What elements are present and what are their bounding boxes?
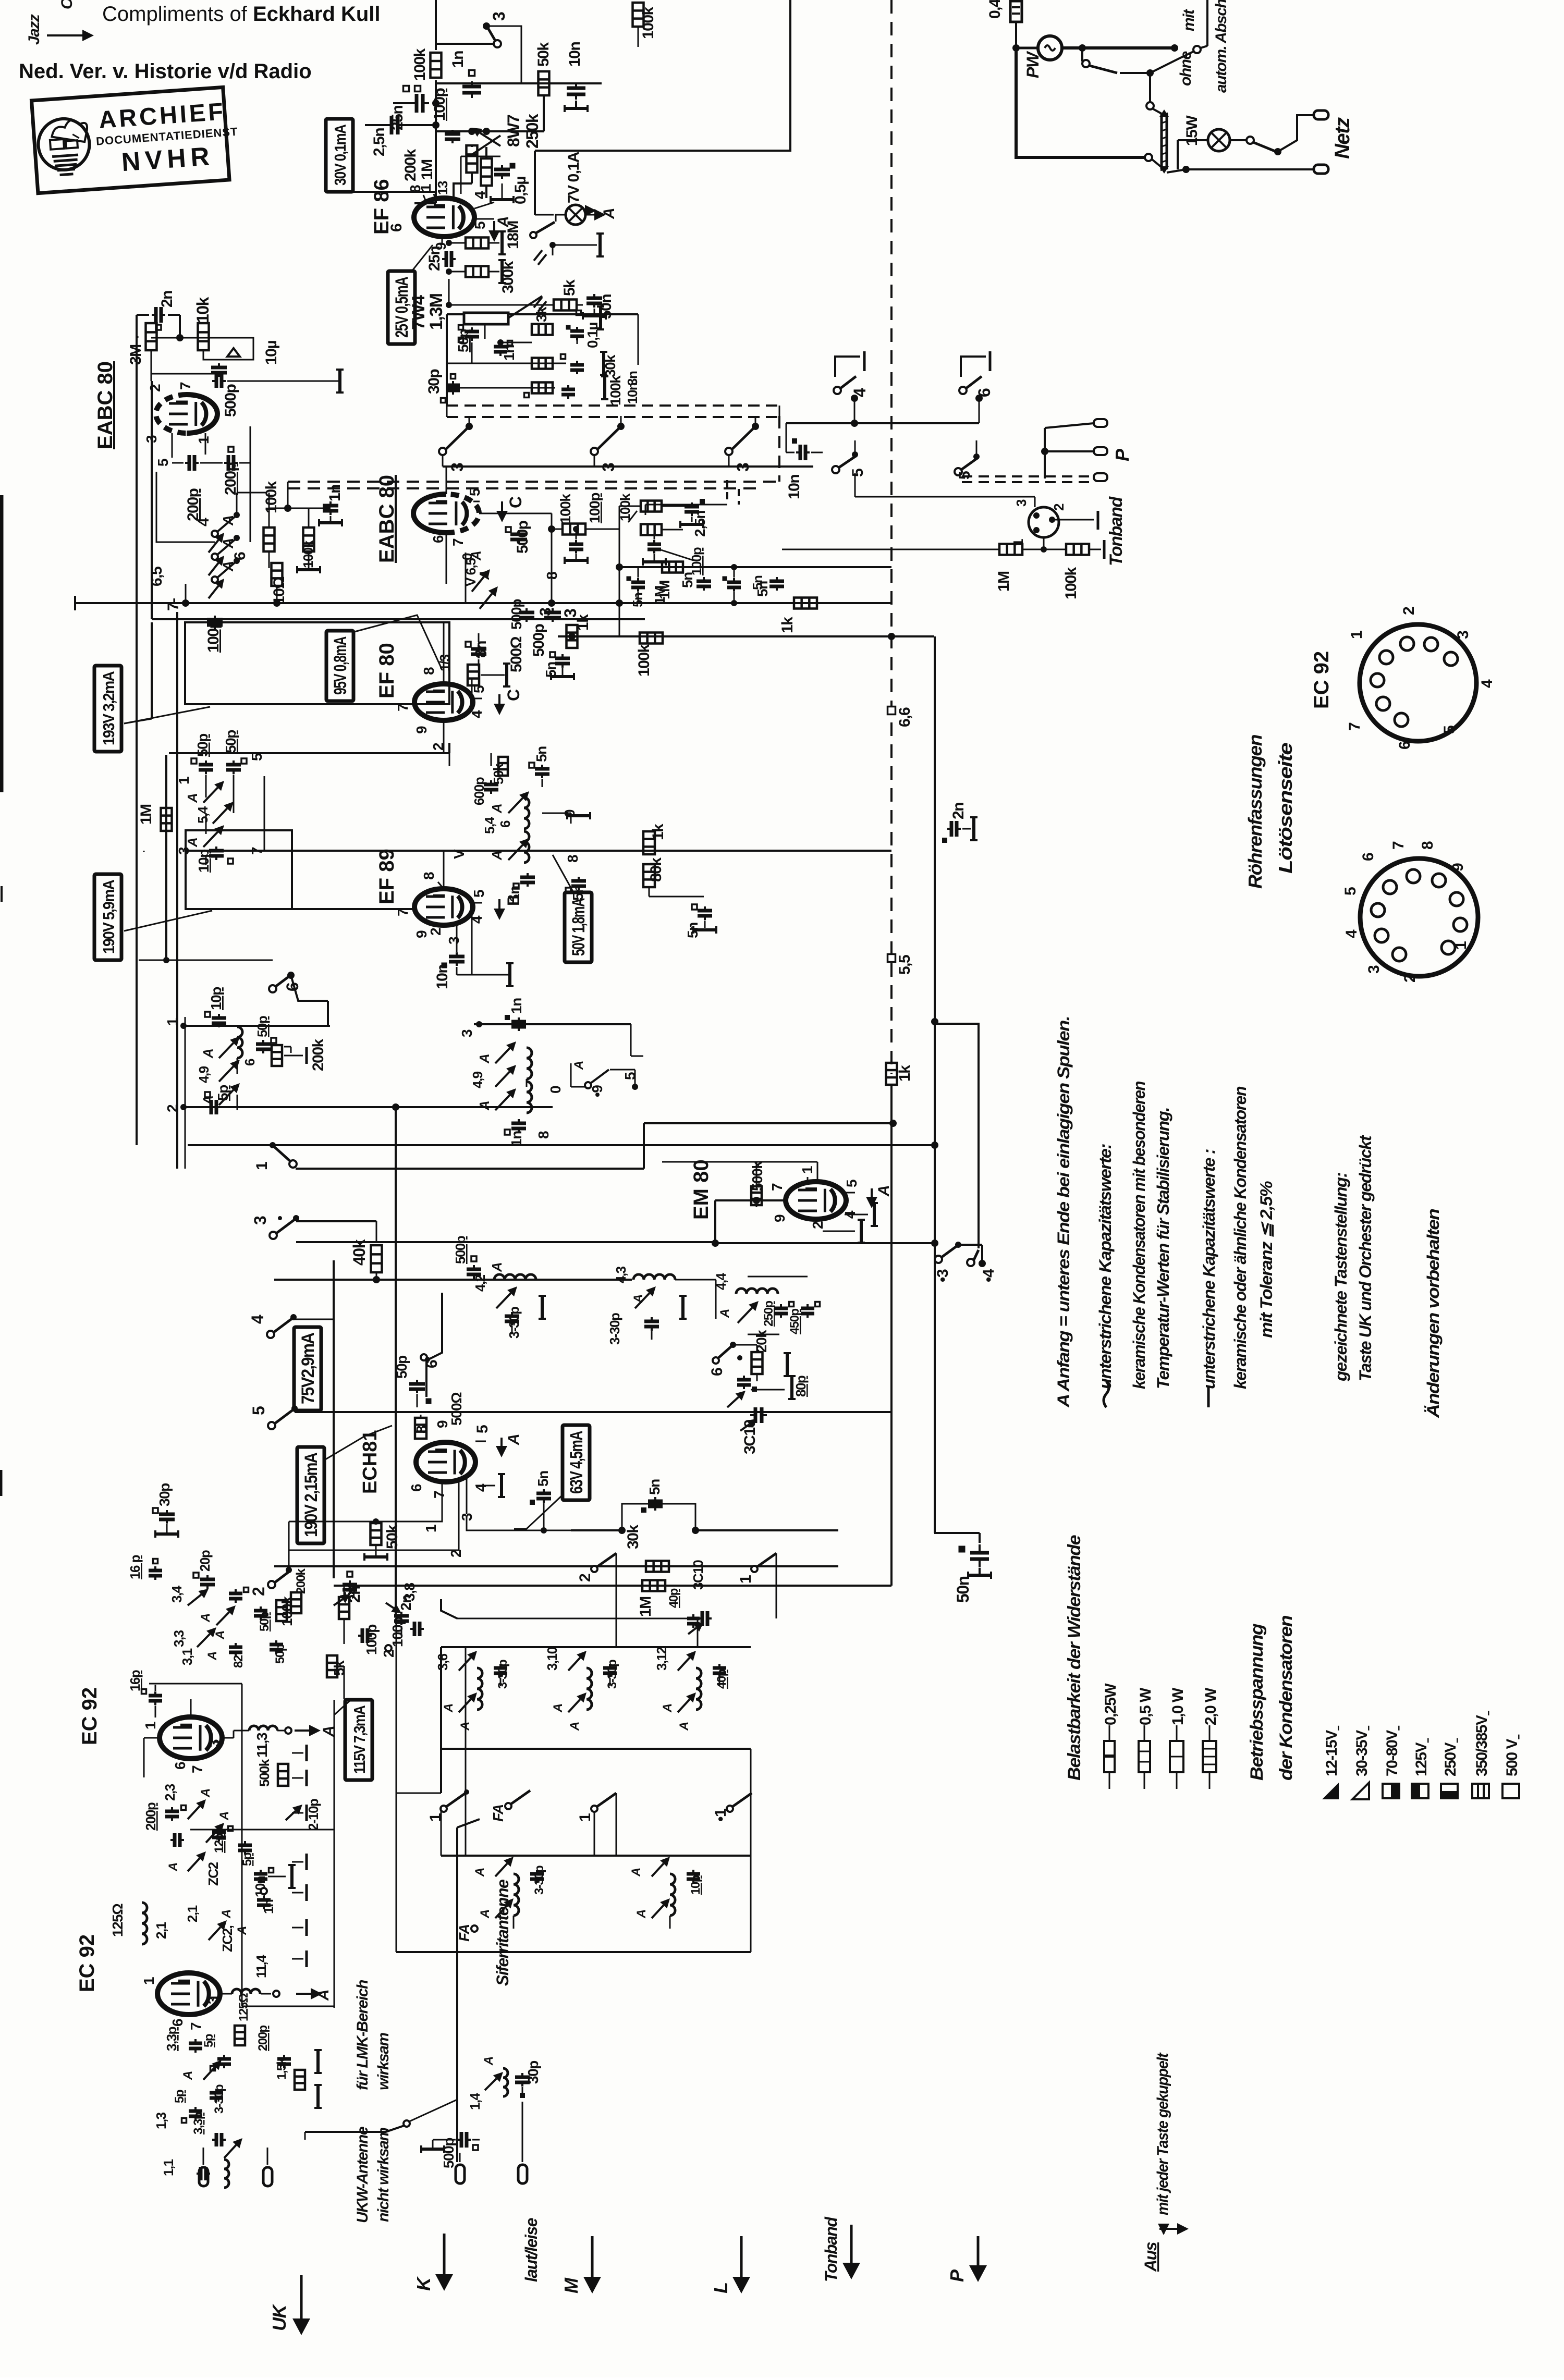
leader 190Vb	[325, 1426, 392, 1459]
bus y2389 em	[715, 1242, 937, 1244]
bank bus b	[441, 1748, 751, 1750]
wire osc rails	[344, 1586, 345, 1597]
wire 200p chain	[200, 462, 223, 464]
cap 5p am	[210, 1100, 213, 1114]
wire mains bottom	[1016, 48, 1145, 157]
wire to primary	[1149, 73, 1151, 102]
svg-text:6: 6	[423, 1360, 441, 1368]
svg-text:3k: 3k	[533, 306, 549, 322]
wire x836 mid	[435, 80, 437, 131]
svg-text:1M: 1M	[652, 586, 668, 605]
svg-text:0,1µ: 0,1µ	[584, 323, 601, 348]
contact 7 det	[212, 576, 218, 583]
resistor 300k	[466, 266, 488, 277]
boxlabel 75V 2,9mA	[294, 1327, 321, 1410]
svg-text:6: 6	[1396, 741, 1413, 750]
bus y2709	[442, 1411, 891, 1413]
svg-text:1,4: 1,4	[467, 2092, 483, 2110]
svg-text:Änderungen vorbehalten: Änderungen vorbehalten	[1424, 1209, 1443, 1418]
leader 63V	[514, 1496, 561, 1529]
wire 3 ech	[296, 1220, 376, 1222]
svg-text:7: 7	[1390, 841, 1407, 850]
svg-text:6: 6	[1360, 853, 1377, 861]
svg-text:5: 5	[467, 488, 483, 496]
contact 1 am det	[275, 1147, 290, 1161]
resistor 100k rd	[563, 524, 585, 535]
trim bank2	[568, 1658, 580, 1671]
capacitor 50n bottom right	[979, 1533, 981, 1543]
trim if2 c	[203, 832, 218, 847]
wire contact3 right	[486, 26, 521, 83]
resistor 5k	[554, 300, 577, 311]
svg-text:100k: 100k	[636, 644, 653, 677]
svg-text:193V 3,2mA: 193V 3,2mA	[100, 671, 118, 745]
svg-text:4,9: 4,9	[196, 1066, 212, 1083]
svg-text:125Ω: 125Ω	[109, 1904, 126, 1937]
svg-text:2n: 2n	[950, 803, 967, 819]
svg-text:0,25W: 0,25W	[1102, 1683, 1119, 1725]
svg-text:7V 0,1A: 7V 0,1A	[565, 152, 582, 203]
svg-text:63V 4,5mA: 63V 4,5mA	[567, 1431, 586, 1494]
svg-text:200p: 200p	[143, 1802, 158, 1831]
svg-text:A: A	[634, 1910, 649, 1919]
capacitor 100p	[445, 132, 460, 136]
coil ech a	[494, 1274, 536, 1280]
wire det pins	[172, 433, 173, 458]
contact 5 tb b	[955, 468, 962, 475]
svg-text:5p: 5p	[173, 2090, 187, 2103]
svg-text:Röhrenfassungen: Röhrenfassungen	[1244, 734, 1266, 889]
svg-text:1,0 W: 1,0 W	[1169, 1687, 1187, 1725]
leader 30V	[353, 191, 436, 193]
svg-text:10n: 10n	[625, 383, 640, 404]
wire det y975	[269, 508, 309, 509]
capacitor 1n	[462, 85, 481, 89]
svg-text:7: 7	[188, 2022, 204, 2030]
wire rd top	[446, 467, 447, 494]
svg-text:mit jeder Taste gekuppelt: mit jeder Taste gekuppelt	[1154, 2052, 1171, 2215]
svg-text:30p: 30p	[156, 1483, 173, 1506]
contact 6 osc	[718, 1346, 732, 1358]
trim am r3	[495, 1095, 510, 1110]
contact 6 am	[269, 985, 276, 992]
resistor 200k	[467, 145, 478, 173]
Netz plug top	[1314, 111, 1328, 119]
capacitor 50n	[586, 297, 602, 300]
gnd em2	[823, 1231, 855, 1232]
wire rd mid	[446, 533, 447, 584]
cap 500p ant	[460, 2132, 463, 2148]
svg-text:3: 3	[251, 1216, 270, 1225]
coil if2	[524, 798, 529, 829]
svg-text:450p: 450p	[788, 1308, 802, 1334]
bus PS link	[1015, 157, 1016, 159]
svg-text:0,4/: 0,4/	[986, 0, 1004, 19]
legend voltage 1	[1352, 1783, 1369, 1799]
svg-text:keramische Kondensatoren mit b: keramische Kondensatoren mit besonderen	[1130, 1081, 1148, 1389]
svg-text:Netz: Netz	[1331, 117, 1354, 159]
contact fa2	[751, 1566, 757, 1572]
res 40k	[371, 1245, 382, 1272]
svg-text:250Vˍ: 250Vˍ	[1442, 1738, 1459, 1776]
boxlabel 193V 3,2mA	[94, 666, 121, 752]
svg-text:80k: 80k	[647, 857, 665, 882]
am bank mid wires	[457, 1618, 698, 1620]
svg-text:3-30p: 3-30p	[506, 1307, 522, 1339]
svg-text:500k: 500k	[256, 1759, 272, 1787]
svg-text:5: 5	[471, 890, 487, 898]
wire top loop	[151, 350, 152, 374]
resistor 10k	[198, 323, 209, 350]
contact 5 ech	[268, 1422, 275, 1429]
svg-text:8: 8	[535, 1131, 552, 1139]
svg-text:82: 82	[231, 1655, 246, 1668]
svg-text:500Ω: 500Ω	[508, 636, 525, 672]
svg-text:9: 9	[434, 1420, 450, 1428]
wire am left	[185, 1017, 186, 1169]
boxlabel 30V 0,1mA	[326, 119, 353, 192]
svg-text:3C10: 3C10	[690, 1560, 706, 1590]
svg-text:2-10p: 2-10p	[306, 1799, 321, 1831]
cap 50p fb	[465, 330, 479, 334]
leader 193V	[124, 707, 210, 723]
svg-text:50p: 50p	[455, 329, 471, 352]
wire x1792 to x1879	[934, 1532, 980, 1534]
boxlabel 115V 7,3mA	[345, 1700, 372, 1780]
resistor 1M	[481, 158, 492, 186]
svg-text:3: 3	[1455, 631, 1472, 639]
cap 1n fb	[494, 345, 507, 349]
capacitor 200p a	[188, 455, 191, 471]
svg-text:6: 6	[430, 535, 446, 543]
ant vertical	[456, 1827, 458, 2162]
svg-text:2,3: 2,3	[162, 1784, 178, 1801]
svg-text:1M: 1M	[995, 571, 1012, 592]
svg-text:15W: 15W	[1183, 115, 1201, 146]
dash wrap rd	[726, 480, 728, 501]
svg-text:1: 1	[176, 777, 192, 784]
svg-text:A: A	[551, 1704, 565, 1713]
capacitor 200p b	[227, 455, 230, 471]
bus y3042	[334, 1585, 891, 1587]
svg-text:1,3M: 1,3M	[426, 293, 446, 330]
legend voltage 4	[1441, 1784, 1458, 1798]
arrow A ecb	[296, 1993, 311, 1995]
wire mains left	[1015, 22, 1017, 48]
capacitor 1n det	[323, 504, 338, 508]
svg-text:20p: 20p	[197, 1550, 213, 1572]
switch mains	[1247, 137, 1254, 144]
capacitor 10n tb	[799, 445, 802, 460]
wire lamp to switch	[1230, 139, 1247, 141]
svg-text:500p: 500p	[441, 2138, 457, 2168]
svg-text:A Anfang = unteres Ende bei e: A Anfang = unteres Ende bei einlagigen S…	[1054, 1016, 1073, 1408]
svg-text:7: 7	[177, 382, 193, 390]
wire det contacts	[236, 493, 238, 515]
svg-text:100p: 100p	[431, 88, 448, 121]
wire 2n left	[137, 314, 149, 316]
cap 5n right	[698, 909, 712, 913]
resistor 1k on bus x1710	[886, 1063, 897, 1085]
bus y812 tb	[786, 422, 979, 424]
svg-text:3: 3	[206, 1739, 222, 1747]
svg-text:8n: 8n	[472, 641, 490, 658]
IF2 right group	[449, 743, 450, 766]
svg-text:3,3p: 3,3p	[164, 2027, 179, 2051]
tube EABC80 det	[156, 395, 187, 433]
svg-text:1M: 1M	[138, 804, 155, 825]
svg-text:EABC 80: EABC 80	[375, 475, 398, 563]
svg-text:12p: 12p	[212, 1833, 226, 1853]
legend wattage 0,25W	[1109, 1725, 1110, 1741]
svg-text:3,3p: 3,3p	[191, 2112, 205, 2134]
resistor 50k	[539, 71, 549, 95]
svg-text:5n: 5n	[646, 1479, 663, 1495]
svg-text:7: 7	[769, 1183, 785, 1191]
svg-text:8: 8	[421, 667, 437, 675]
svg-text:5: 5	[472, 222, 488, 229]
wire ef89 grid	[414, 907, 416, 909]
legend wattage 1,0 W	[1176, 1725, 1178, 1741]
svg-text:1k: 1k	[575, 614, 592, 631]
gnd 500ohm	[481, 674, 505, 676]
contact 4 ech	[267, 1331, 274, 1338]
cap 10p am	[212, 1016, 226, 1020]
svg-text:5: 5	[1342, 887, 1359, 895]
svg-text:5,5: 5,5	[896, 955, 913, 975]
svg-text:350/385Vˍ: 350/385Vˍ	[1473, 1711, 1490, 1776]
svg-text:EC 92: EC 92	[1310, 651, 1333, 709]
svg-text:1M: 1M	[637, 1597, 654, 1617]
cap 100p fm	[361, 1628, 364, 1643]
leader 50V	[553, 855, 573, 892]
wire y160 row	[436, 82, 602, 84]
leader 190V	[124, 911, 212, 931]
cap 01 fb	[570, 329, 584, 333]
capacitor 2n bus	[950, 821, 954, 837]
svg-text:100p: 100p	[586, 493, 603, 523]
svg-text:500p: 500p	[530, 623, 547, 657]
svg-text:50k: 50k	[535, 42, 552, 67]
bus right wrap	[935, 1024, 979, 1248]
svg-text:6: 6	[388, 224, 405, 232]
svg-text:A: A	[601, 208, 618, 219]
svg-text:6: 6	[975, 388, 994, 397]
wire mit drop	[1206, 0, 1208, 46]
arrow C rd	[501, 501, 503, 511]
cap 10n ef89	[449, 955, 465, 959]
resistor 100k tb	[1066, 544, 1089, 555]
bus y1965	[184, 1025, 330, 1027]
wire y645	[137, 336, 139, 338]
svg-text:Taste UK und Orchester gedrück: Taste UK und Orchester gedrückt	[1356, 1135, 1375, 1381]
contact 1 am	[441, 1806, 447, 1812]
gnd 50p am	[284, 1046, 291, 1048]
svg-text:FA: FA	[456, 1924, 472, 1942]
svg-text:1: 1	[1452, 941, 1470, 950]
bus y1188	[152, 618, 645, 620]
arrow jazz	[47, 34, 82, 36]
svg-text:40p: 40p	[715, 1669, 729, 1689]
svg-text:4: 4	[1479, 679, 1496, 688]
wire if link	[264, 776, 265, 851]
wire 4 ech	[294, 1319, 334, 1320]
trim rd1	[472, 576, 484, 592]
pin5 EF86	[474, 218, 494, 220]
svg-text:10p: 10p	[689, 1875, 703, 1895]
svg-text:5n: 5n	[679, 572, 695, 588]
wire ef80 top	[443, 623, 445, 684]
svg-text:EC 92: EC 92	[78, 1687, 101, 1745]
coil ec92b	[232, 1989, 260, 1994]
tube EF89	[414, 889, 473, 925]
trim if2 a	[203, 788, 218, 803]
wire ef80 sg	[471, 679, 473, 693]
am bank bottom wire	[396, 1951, 751, 1953]
res 500ohm ef80	[468, 665, 479, 685]
bus link y1221	[891, 635, 934, 637]
gnd din pin2	[1055, 519, 1094, 521]
switch 9 am	[585, 1082, 591, 1088]
svg-text:A: A	[476, 1054, 492, 1064]
capacitor 500p det	[211, 366, 227, 370]
svg-text:1,1: 1,1	[161, 2159, 176, 2176]
arrow A em	[871, 1188, 873, 1197]
svg-text:50p: 50p	[394, 1356, 410, 1379]
svg-text:1: 1	[141, 1977, 157, 1985]
svg-text:EF 89: EF 89	[375, 849, 398, 904]
resistor 100k det	[264, 527, 275, 551]
svg-text:4,2: 4,2	[472, 1274, 488, 1292]
capacitor 25n cathode	[445, 251, 448, 267]
dashed bus pair top	[447, 404, 779, 407]
svg-text:40p: 40p	[667, 1588, 681, 1608]
svg-text:40k: 40k	[350, 1239, 369, 1266]
res 5k a	[339, 1597, 349, 1619]
svg-text:4,9: 4,9	[470, 1071, 485, 1088]
svg-text:4,3: 4,3	[613, 1266, 629, 1283]
svg-text:500p: 500p	[453, 1236, 468, 1264]
bus 1k y1221	[558, 635, 891, 637]
svg-text:4: 4	[472, 191, 488, 199]
svg-text:0: 0	[547, 1086, 564, 1094]
resistor 100k rd2	[641, 501, 662, 512]
tube EC92 b	[157, 1973, 220, 2015]
svg-text:5: 5	[474, 1425, 491, 1433]
bus y3005	[274, 1565, 838, 1567]
svg-text:A: A	[220, 516, 236, 526]
svg-text:115V 7,3mA: 115V 7,3mA	[350, 1706, 369, 1774]
svg-text:2: 2	[810, 1221, 826, 1229]
coil am2	[527, 1048, 532, 1079]
bus y2455	[274, 1279, 569, 1281]
svg-text:3: 3	[459, 1029, 475, 1037]
contact *4 em	[967, 1259, 974, 1266]
svg-text:500 Vˍ: 500 Vˍ	[1504, 1734, 1521, 1776]
svg-text:11,3: 11,3	[254, 1733, 270, 1758]
svg-text:2,1: 2,1	[153, 1922, 169, 1939]
svg-text:10p: 10p	[195, 850, 212, 873]
svg-text:A: A	[661, 1704, 675, 1713]
wire y895	[443, 465, 813, 468]
legend wattage 0,5 W	[1144, 1725, 1145, 1741]
svg-text:50p: 50p	[223, 730, 239, 753]
svg-text:30k: 30k	[625, 1525, 642, 1549]
contact 5 tb a	[832, 466, 839, 473]
capacitor 5n b	[631, 581, 645, 584]
trim am r2	[495, 1072, 510, 1087]
svg-text:A: A	[199, 1789, 213, 1798]
trim bank1	[459, 1658, 471, 1671]
cap 3-30p a	[505, 1315, 519, 1318]
dash link P	[962, 475, 1094, 477]
svg-text:autom. Abschal: autom. Abschal	[1213, 0, 1230, 93]
svg-text:unterstrichene Kapazitätswerte: unterstrichene Kapazitätswerte :	[1200, 1149, 1218, 1389]
fm box horizontals	[149, 1683, 242, 1685]
svg-text:1n: 1n	[508, 998, 524, 1014]
svg-text:Belastbarkeit der Widerstände: Belastbarkeit der Widerstände	[1065, 1535, 1084, 1781]
svg-text:A: A	[219, 1910, 234, 1919]
wire if2 secondary	[205, 775, 207, 798]
trimmer 8W7	[469, 136, 500, 156]
svg-text:2: 2	[249, 1587, 268, 1596]
svg-text:1: 1	[418, 184, 434, 192]
svg-text:A: A	[568, 1722, 582, 1731]
contact 3 b	[591, 448, 598, 455]
tube EF80	[414, 684, 473, 720]
svg-text:8: 8	[565, 855, 581, 863]
fuse 0,4A	[1010, 1, 1022, 22]
svg-text:1: 1	[195, 436, 212, 444]
resistor 3M	[146, 323, 157, 350]
svg-text:•9: •9	[589, 1085, 605, 1097]
wire ukw switch	[305, 2126, 404, 2132]
svg-text:UKW-Antenne: UKW-Antenne	[354, 2127, 371, 2223]
svg-text:6: 6	[242, 1059, 258, 1066]
coil ec92a	[249, 1726, 277, 1731]
capacitor 2,5n rd	[685, 505, 699, 509]
bus y1088	[619, 566, 891, 568]
svg-text:8: 8	[413, 1426, 430, 1433]
svg-text:A: A	[572, 1061, 586, 1070]
resistor 10ohm	[272, 563, 283, 586]
gnd 100k tb	[1103, 540, 1106, 559]
svg-text:2: 2	[1400, 607, 1418, 615]
svg-text:190V 5,9mA: 190V 5,9mA	[100, 880, 118, 954]
wire 43 44	[569, 1279, 632, 1281]
svg-text:2,5n: 2,5n	[371, 128, 388, 156]
svg-text:0,5 W: 0,5 W	[1137, 1687, 1154, 1725]
svg-text:A: A	[220, 561, 236, 572]
cap 50p a	[199, 763, 213, 767]
svg-text:A: A	[718, 1309, 732, 1318]
wire eca left	[144, 1737, 160, 1739]
svg-text:FA: FA	[490, 1805, 506, 1822]
cap 1n fm2	[257, 1898, 271, 1902]
svg-text:7: 7	[1346, 722, 1363, 731]
svg-text:7: 7	[395, 704, 411, 711]
left vertical bus A	[136, 337, 138, 1145]
svg-text:9: 9	[772, 1214, 788, 1222]
vert x640	[333, 1260, 335, 1578]
svg-text:5: 5	[849, 469, 866, 477]
resistor 100k top right	[633, 3, 644, 27]
svg-text:Tonband: Tonband	[1106, 496, 1126, 566]
wire PW to mit	[1062, 46, 1175, 50]
svg-text:ECH81: ECH81	[359, 1430, 381, 1494]
lamp 15W	[1208, 129, 1230, 151]
legend wattage 2,0 W	[1209, 1725, 1211, 1741]
